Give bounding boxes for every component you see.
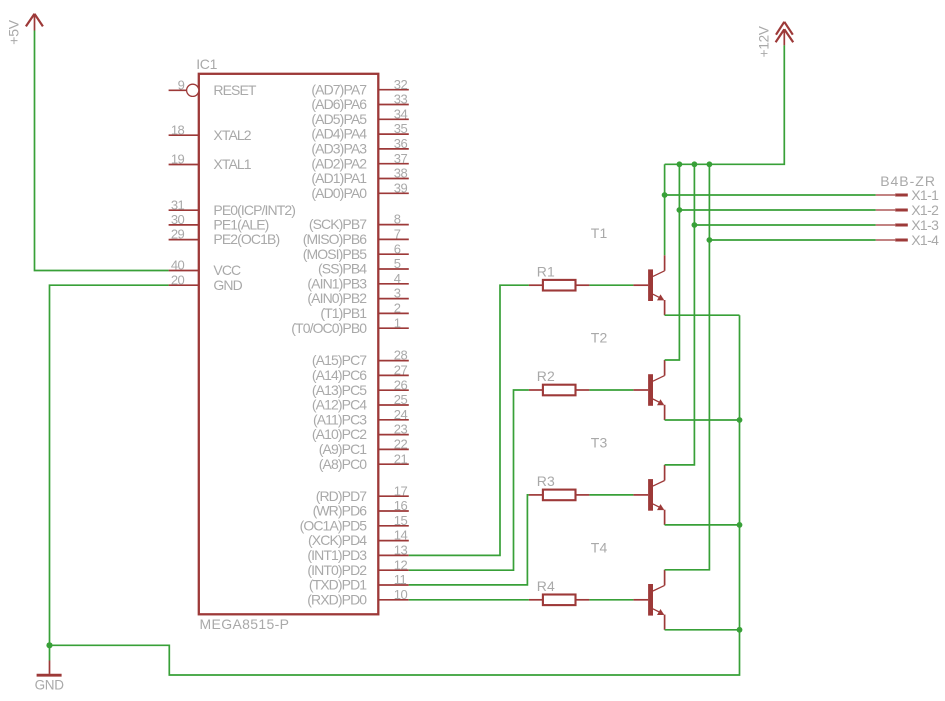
resistor R3 xyxy=(529,473,590,500)
svg-text:31: 31 xyxy=(171,197,185,212)
svg-text:T4: T4 xyxy=(591,540,608,556)
wire T4 collector jog up to rail and X1-4 xyxy=(665,164,710,570)
svg-text:26: 26 xyxy=(394,377,408,392)
resistor R4 xyxy=(529,578,590,605)
svg-text:16: 16 xyxy=(394,498,408,513)
junction rail / vertical 4 xyxy=(707,161,713,167)
svg-text:22: 22 xyxy=(394,437,408,452)
pin 28 (A15)PC7 xyxy=(312,348,409,369)
svg-text:(OC1A)PD5: (OC1A)PD5 xyxy=(300,517,368,533)
svg-text:T3: T3 xyxy=(591,435,608,451)
svg-text:4: 4 xyxy=(394,271,401,286)
svg-text:(AIN1)PB3: (AIN1)PB3 xyxy=(307,275,367,291)
svg-text:3: 3 xyxy=(394,286,401,301)
junction X1-2 / vertical xyxy=(677,207,683,213)
pin 39 (AD0)PA0 xyxy=(311,180,408,201)
wire PD0 to R4 xyxy=(409,599,529,601)
svg-text:11: 11 xyxy=(394,572,407,587)
svg-text:R2: R2 xyxy=(537,368,555,384)
supply +12V symbol xyxy=(757,22,794,58)
svg-text:X1-3: X1-3 xyxy=(911,217,939,233)
svg-text:7: 7 xyxy=(394,227,401,242)
wire R1 to T1 base xyxy=(589,284,633,286)
svg-text:(MISO)PB6: (MISO)PB6 xyxy=(303,231,368,247)
svg-text:35: 35 xyxy=(394,121,408,136)
svg-text:R3: R3 xyxy=(537,473,555,489)
svg-text:(AD4)PA4: (AD4)PA4 xyxy=(311,126,367,142)
svg-text:24: 24 xyxy=(394,407,408,422)
connector label B4B-ZR xyxy=(880,173,936,189)
svg-text:VCC: VCC xyxy=(213,262,241,278)
svg-text:X1-2: X1-2 xyxy=(911,202,939,218)
svg-text:(AIN0)PB2: (AIN0)PB2 xyxy=(307,290,367,306)
svg-text:29: 29 xyxy=(171,227,185,242)
pin 11 (TXD)PD1 xyxy=(309,572,409,593)
wire X1-3 row xyxy=(694,224,875,226)
pin 36 (AD3)PA3 xyxy=(311,136,408,157)
pin 19 XTAL1 xyxy=(169,152,252,173)
pin 15 (OC1A)PD5 xyxy=(300,513,409,534)
svg-text:39: 39 xyxy=(394,180,408,195)
pin 27 (A14)PC6 xyxy=(312,363,409,384)
svg-text:10: 10 xyxy=(394,587,408,602)
junction T3 emitter at bus xyxy=(737,522,743,528)
svg-text:RESET: RESET xyxy=(213,82,257,98)
wire T3 emitter to bus xyxy=(665,524,740,526)
svg-text:15: 15 xyxy=(394,513,408,528)
wire T1 collector up to rail and X1-1 xyxy=(664,164,666,255)
svg-text:30: 30 xyxy=(171,212,185,227)
svg-text:1: 1 xyxy=(394,315,401,330)
svg-text:12: 12 xyxy=(394,557,408,572)
svg-text:R4: R4 xyxy=(537,578,555,594)
wire R3 to T3 base xyxy=(589,494,633,496)
svg-text:36: 36 xyxy=(394,136,408,151)
pin 20 GND xyxy=(169,272,243,293)
pin 9 RESET xyxy=(169,77,257,98)
pin 40 VCC xyxy=(169,258,241,279)
ground symbol GND xyxy=(35,645,65,692)
pin 1 (T0/OC0)PB0 xyxy=(291,315,409,336)
svg-text:(T1)PB1: (T1)PB1 xyxy=(320,305,367,321)
junction T2 emitter at bus xyxy=(737,417,743,423)
svg-text:(MOSI)PB5: (MOSI)PB5 xyxy=(303,246,368,262)
pin 21 (A8)PC0 xyxy=(319,451,409,472)
pin 16 (WR)PD6 xyxy=(313,498,409,518)
value label MEGA8515-P xyxy=(200,616,290,632)
connector pin X1-3 xyxy=(876,217,939,233)
pin 26 (A13)PC5 xyxy=(312,377,409,398)
pin 34 (AD5)PA5 xyxy=(311,106,408,127)
pin 3 (AIN0)PB2 xyxy=(307,286,408,307)
svg-text:(INT0)PD2: (INT0)PD2 xyxy=(307,562,367,578)
supply +5V symbol xyxy=(6,14,43,45)
pin 22 (A9)PC1 xyxy=(319,437,409,458)
label IC1 xyxy=(196,56,217,72)
pin 25 (A12)PC4 xyxy=(312,392,409,413)
pin 23 (A10)PC2 xyxy=(312,422,409,443)
pin 35 (AD4)PA4 xyxy=(311,121,408,142)
pin 33 (AD6)PA6 xyxy=(311,92,408,113)
pin 10 (RXD)PD0 xyxy=(307,587,409,608)
wire IC pin20 GND to left and down xyxy=(50,285,169,645)
wire R4 to T4 base xyxy=(589,599,633,601)
svg-text:(AD2)PA2: (AD2)PA2 xyxy=(311,155,367,171)
svg-text:8: 8 xyxy=(394,212,401,227)
svg-text:25: 25 xyxy=(394,392,408,407)
pin 4 (AIN1)PB3 xyxy=(307,271,408,292)
connector pin X1-4 xyxy=(876,232,939,248)
svg-text:(A8)PC0: (A8)PC0 xyxy=(319,456,367,472)
svg-text:(TXD)PD1: (TXD)PD1 xyxy=(309,577,367,593)
svg-text:(A11)PC3: (A11)PC3 xyxy=(313,411,367,427)
svg-text:PE2(OC1B): PE2(OC1B) xyxy=(213,231,279,247)
transistor T3 xyxy=(591,435,665,525)
junction X1-3 / vertical xyxy=(692,222,698,228)
pin 14 (XCK)PD4 xyxy=(308,528,409,549)
junction X1-1 / vertical xyxy=(662,192,668,198)
svg-text:+5V: +5V xyxy=(6,19,22,45)
svg-text:5: 5 xyxy=(394,256,401,271)
svg-text:X1-1: X1-1 xyxy=(911,187,939,203)
svg-text:(SS)PB4: (SS)PB4 xyxy=(318,261,367,277)
transistor T2 xyxy=(591,330,665,420)
svg-text:9: 9 xyxy=(178,77,185,92)
svg-text:14: 14 xyxy=(394,528,408,543)
svg-text:(AD1)PA1: (AD1)PA1 xyxy=(311,170,367,186)
wire PD1 to R3 xyxy=(409,495,529,585)
pin 30 PE1(ALE) xyxy=(169,212,269,233)
pin 13 (INT1)PD3 xyxy=(307,543,408,564)
svg-text:27: 27 xyxy=(394,363,408,378)
wire T1 emitter to bus xyxy=(665,314,740,316)
transistor T1 xyxy=(591,225,665,315)
pin 37 (AD2)PA2 xyxy=(311,151,408,172)
svg-text:(AD0)PA0: (AD0)PA0 xyxy=(311,185,367,201)
svg-text:(AD7)PA7: (AD7)PA7 xyxy=(311,81,367,97)
resistor R2 xyxy=(529,368,590,395)
svg-text:PE0(ICP/INT2): PE0(ICP/INT2) xyxy=(213,202,295,218)
connector pin X1-1 xyxy=(876,187,939,203)
svg-text:(A9)PC1: (A9)PC1 xyxy=(319,441,367,457)
pin 31 PE0(ICP/INT2) xyxy=(169,197,296,218)
junction at GND node xyxy=(46,642,52,648)
svg-text:(A15)PC7: (A15)PC7 xyxy=(312,352,367,368)
pin 24 (A11)PC3 xyxy=(313,407,409,428)
pin 2 (T1)PB1 xyxy=(320,301,408,322)
svg-text:32: 32 xyxy=(394,77,408,92)
svg-text:IC1: IC1 xyxy=(196,56,217,72)
svg-text:(INT1)PD3: (INT1)PD3 xyxy=(307,547,367,563)
wire +12V down to rail xyxy=(665,45,785,164)
wire X1-4 row xyxy=(709,239,875,241)
wire +5V to VCC pin 40 xyxy=(35,31,169,271)
wire T3 collector jog up to rail and X1-3 xyxy=(665,164,695,465)
svg-text:XTAL2: XTAL2 xyxy=(213,127,251,143)
svg-text:T1: T1 xyxy=(591,225,608,241)
svg-text:37: 37 xyxy=(394,151,408,166)
svg-text:(A14)PC6: (A14)PC6 xyxy=(312,367,367,383)
svg-text:(RD)PD7: (RD)PD7 xyxy=(316,488,368,504)
pin 5 (SS)PB4 xyxy=(318,256,409,277)
svg-text:+12V: +12V xyxy=(757,26,772,57)
svg-text:(AD6)PA6: (AD6)PA6 xyxy=(311,96,367,112)
svg-text:(WR)PD6: (WR)PD6 xyxy=(313,503,368,519)
svg-text:33: 33 xyxy=(394,92,408,107)
junction X1-4 / vertical xyxy=(707,237,713,243)
connector pin X1-2 xyxy=(876,202,939,218)
junction rail / vertical 2 xyxy=(677,161,683,167)
wire X1-2 row xyxy=(679,209,875,211)
svg-text:2: 2 xyxy=(394,301,401,316)
svg-text:(AD5)PA5: (AD5)PA5 xyxy=(311,111,367,127)
svg-text:(AD3)PA3: (AD3)PA3 xyxy=(311,141,367,157)
svg-text:20: 20 xyxy=(171,272,185,287)
svg-text:38: 38 xyxy=(394,166,408,181)
svg-text:X1-4: X1-4 xyxy=(911,232,939,248)
wire R2 to T2 base xyxy=(589,389,633,391)
wire PD2 to R2 xyxy=(409,390,529,570)
IC IC1 MEGA8515-P box xyxy=(199,74,378,615)
wire T2 emitter to bus xyxy=(665,419,740,421)
svg-text:GND: GND xyxy=(213,277,242,293)
wire PD3 to R1 xyxy=(409,285,529,555)
svg-text:(SCK)PB7: (SCK)PB7 xyxy=(309,216,367,232)
pin 17 (RD)PD7 xyxy=(316,483,409,504)
svg-text:PE1(ALE): PE1(ALE) xyxy=(213,217,268,233)
svg-text:34: 34 xyxy=(394,106,408,121)
svg-text:40: 40 xyxy=(171,258,185,273)
svg-text:(RXD)PD0: (RXD)PD0 xyxy=(307,591,367,607)
svg-text:23: 23 xyxy=(394,422,408,437)
svg-text:T2: T2 xyxy=(591,330,608,346)
svg-text:(A12)PC4: (A12)PC4 xyxy=(312,397,367,413)
svg-text:17: 17 xyxy=(394,483,408,498)
svg-text:13: 13 xyxy=(394,543,408,558)
transistor T4 xyxy=(591,540,665,630)
pin 32 (AD7)PA7 xyxy=(311,77,408,98)
wire GND bottom bus to emitters xyxy=(50,315,740,675)
svg-text:(XCK)PD4: (XCK)PD4 xyxy=(308,532,367,548)
junction rail / vertical 3 xyxy=(692,161,698,167)
svg-text:GND: GND xyxy=(35,677,65,692)
wire T2 collector jog up to rail and X1-2 xyxy=(665,164,680,360)
svg-text:(A13)PC5: (A13)PC5 xyxy=(312,382,367,398)
junction T4 emitter at bus xyxy=(737,627,743,633)
svg-text:6: 6 xyxy=(394,241,401,256)
svg-text:(A10)PC2: (A10)PC2 xyxy=(312,426,367,442)
svg-text:MEGA8515-P: MEGA8515-P xyxy=(200,616,290,632)
pin 12 (INT0)PD2 xyxy=(307,557,408,578)
svg-text:28: 28 xyxy=(394,348,408,363)
pin 7 (MISO)PB6 xyxy=(303,227,409,248)
pin 18 XTAL2 xyxy=(169,122,252,143)
pin 29 PE2(OC1B) xyxy=(169,227,280,248)
svg-text:XTAL1: XTAL1 xyxy=(213,156,251,172)
svg-text:21: 21 xyxy=(394,451,408,466)
pin 8 (SCK)PB7 xyxy=(309,212,409,233)
pin 6 (MOSI)PB5 xyxy=(303,241,409,261)
svg-text:19: 19 xyxy=(171,152,185,167)
svg-text:18: 18 xyxy=(171,122,185,137)
svg-text:(T0/OC0)PB0: (T0/OC0)PB0 xyxy=(291,320,367,336)
resistor R1 xyxy=(529,263,590,290)
svg-text:R1: R1 xyxy=(537,263,555,279)
wire T4 emitter to bus xyxy=(665,629,740,631)
wire X1-1 row xyxy=(665,194,876,196)
pin 38 (AD1)PA1 xyxy=(311,166,408,187)
